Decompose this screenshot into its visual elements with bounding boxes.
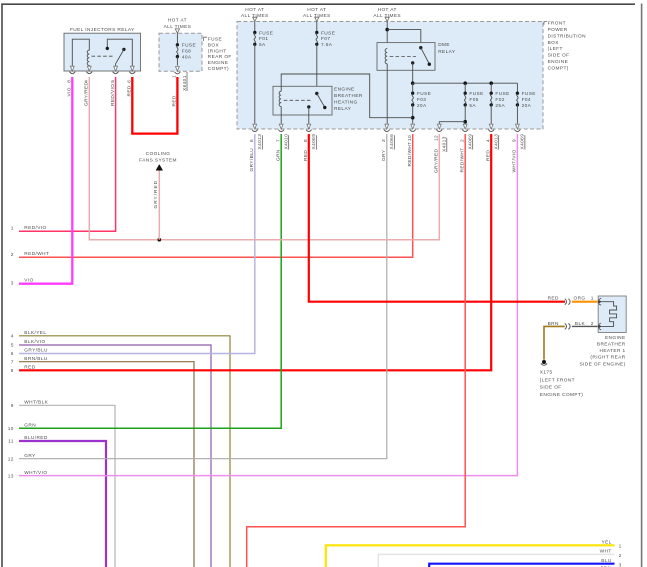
svg-text:WHT/BLK: WHT/BLK <box>24 400 48 406</box>
wire breather relay coil feed from F03 output <box>281 74 413 118</box>
connector label X4069 pin 9 <box>520 134 526 150</box>
svg-text:ORG: ORG <box>573 295 585 301</box>
svg-text:7: 7 <box>275 139 281 142</box>
wire BLK/VIO: left edge node 5 down off page bottom <box>19 345 211 567</box>
fuse F68 60A <box>176 33 196 65</box>
fuel relay coil-to-switch dashed link <box>92 55 114 57</box>
svg-text:9: 9 <box>512 139 518 142</box>
power feed HOT AT ALL TIMES above DME relay <box>373 7 401 22</box>
svg-text:FUEL INJECTORS RELAY: FUEL INJECTORS RELAY <box>70 27 135 33</box>
inline connector on heater return <box>565 323 570 329</box>
svg-text:RED: RED <box>485 150 491 161</box>
svg-text:RELAY: RELAY <box>438 49 456 55</box>
node 9 label WHT/BLK <box>11 400 49 410</box>
svg-text:3: 3 <box>619 563 622 567</box>
fuse box leader bracket <box>204 37 207 41</box>
heater component label <box>579 335 625 367</box>
fuse F01 5A <box>253 22 273 49</box>
svg-text:COOLING: COOLING <box>146 151 171 157</box>
svg-text:13: 13 <box>8 473 14 479</box>
svg-text:FUSE: FUSE <box>321 30 335 36</box>
wire GRN: left edge node 10 to distribution box pin 7 <box>19 134 281 428</box>
svg-text:RELAY: RELAY <box>334 106 352 112</box>
svg-text:1: 1 <box>591 295 594 301</box>
svg-text:F05: F05 <box>469 97 478 103</box>
svg-text:8: 8 <box>67 80 73 83</box>
svg-text:F04: F04 <box>522 97 531 103</box>
svg-text:GRY/BLU: GRY/BLU <box>249 148 255 172</box>
breather relay switch contacts <box>307 92 326 109</box>
distribution box pin 8 connector <box>306 124 312 131</box>
svg-text:BOX: BOX <box>548 40 560 46</box>
node 6 label GRY/BLU <box>11 348 48 358</box>
wire fuse F01 output down to pin 6 <box>254 44 256 124</box>
svg-text:SIDE OF ENGINE): SIDE OF ENGINE) <box>579 361 625 367</box>
ground point X175 <box>541 360 547 365</box>
svg-text:REAR OF: REAR OF <box>208 54 232 60</box>
svg-text:5A: 5A <box>259 42 266 48</box>
fuel relay pin 5 connector <box>113 66 119 73</box>
svg-text:GRY/RED: GRY/RED <box>153 180 159 209</box>
svg-text:ENGINE COMPT): ENGINE COMPT) <box>540 392 583 398</box>
svg-text:5: 5 <box>110 80 116 83</box>
junction F03 output to breather relay coil feed <box>411 116 415 120</box>
node 5 label BLK/VIO <box>11 339 46 349</box>
wire WHT from page bottom to right connector pin 2 <box>378 554 614 567</box>
svg-text:10: 10 <box>8 426 14 432</box>
connector label X4010 pin 7 <box>284 134 290 150</box>
wire fuse F03 output down to pin 10 <box>412 105 414 124</box>
distribution box location label <box>548 21 586 72</box>
breather relay coil <box>279 91 281 124</box>
svg-text:FUSE: FUSE <box>259 30 273 36</box>
wire BLU from page bottom to right connector pin 3 <box>429 564 614 567</box>
fuse F07 7.5A <box>315 22 335 49</box>
wire ORG into heater pin 1 <box>572 301 598 303</box>
svg-text:YEL: YEL <box>602 539 612 545</box>
svg-text:F68: F68 <box>182 49 191 55</box>
svg-text:25A: 25A <box>495 103 505 109</box>
wire RED/VIO: left edge node 1 to fuel relay pin 5 <box>19 77 116 231</box>
ground label X175 <box>540 369 583 398</box>
svg-text:ENGINE: ENGINE <box>334 87 355 93</box>
svg-text:FRONT: FRONT <box>548 21 566 27</box>
page border frame top <box>1 3 635 5</box>
svg-text:(LEFT: (LEFT <box>548 46 563 52</box>
wire DME coil output down to pin 3 <box>386 70 388 124</box>
svg-text:BLK/YEL: BLK/YEL <box>24 330 46 336</box>
wire GRY/BLU: left edge node 6 to distribution box pin 6 <box>19 134 255 354</box>
svg-text:40A: 40A <box>182 54 192 60</box>
connector label X4013 pin 6 <box>257 134 263 150</box>
svg-text:F01: F01 <box>259 36 268 42</box>
power feed HOT AT ALL TIMES above fuse F07 <box>303 7 331 22</box>
wire fuse F07 output down to engine breather heating relay switch <box>316 44 318 93</box>
distribution box pin 9 connector <box>515 124 521 131</box>
wire fuse supply rail <box>413 82 518 84</box>
svg-text:12: 12 <box>8 456 14 462</box>
svg-text:BLU: BLU <box>601 558 612 564</box>
breather relay dashed link <box>284 99 311 101</box>
relay K3 ENGINE BREATHER HEATING RELAY <box>273 86 363 115</box>
svg-text:BRN/BLU: BRN/BLU <box>24 356 48 362</box>
svg-text:RED: RED <box>172 95 178 106</box>
distribution box leader bracket <box>544 22 547 25</box>
svg-text:FUSE: FUSE <box>522 91 536 97</box>
svg-text:HEATING: HEATING <box>334 100 358 106</box>
fuse box location label <box>208 37 232 73</box>
svg-text:HEATER 1: HEATER 1 <box>600 348 626 354</box>
svg-text:20A: 20A <box>417 103 427 109</box>
svg-text:DISTRIBUTION: DISTRIBUTION <box>548 33 586 39</box>
svg-text:RED: RED <box>548 295 559 301</box>
svg-text:RED/VIO: RED/VIO <box>110 84 116 106</box>
svg-text:GRY: GRY <box>381 149 387 161</box>
svg-text:F03: F03 <box>417 97 426 103</box>
svg-text:1: 1 <box>619 544 622 550</box>
heater R1 ENGINE BREATHER HEATER 1 box <box>598 296 626 333</box>
svg-text:FUSE: FUSE <box>495 91 509 97</box>
fuel relay pin 6 connector <box>129 66 135 73</box>
svg-text:ENGINE: ENGINE <box>605 335 626 341</box>
fuse F02 25A <box>490 83 510 109</box>
svg-text:BOX: BOX <box>208 42 220 48</box>
distribution box pin 6 connector <box>252 124 258 131</box>
svg-text:COMPT): COMPT) <box>208 66 229 72</box>
svg-text:7.5A: 7.5A <box>321 42 333 48</box>
svg-text:8: 8 <box>11 368 14 374</box>
distribution box pin 12 connector <box>436 124 442 131</box>
wire GRY: left edge node 12 to distribution box pin 3 <box>19 134 387 459</box>
wire breather relay output down to pin 8 <box>308 107 310 124</box>
wire fuse F05 output down to pin 2 <box>464 105 466 124</box>
svg-text:SIDE OF: SIDE OF <box>540 385 562 391</box>
svg-text:BREATHER: BREATHER <box>334 93 363 99</box>
svg-text:3: 3 <box>11 281 14 287</box>
svg-text:6: 6 <box>11 351 14 357</box>
svg-text:HOT AT: HOT AT <box>245 7 264 13</box>
wire BLK/YEL: left edge node 4 down off page bottom <box>19 336 230 567</box>
wire DME relay output down to fuse rail <box>412 63 414 83</box>
node 11 label BLU/RED <box>8 435 48 445</box>
junction on GRY/RED wire at cooling fans branch <box>158 238 162 242</box>
svg-text:4: 4 <box>485 139 491 142</box>
svg-text:11: 11 <box>8 439 14 445</box>
svg-text:FANS SYSTEM: FANS SYSTEM <box>139 157 177 163</box>
wire RED/WHT: left edge node 2 to distribution box pin 10 <box>19 134 413 257</box>
distribution box pin 4 connector <box>488 124 494 131</box>
svg-text:2: 2 <box>619 553 622 559</box>
svg-text:10: 10 <box>407 135 413 141</box>
wire branch to DME relay switch contact <box>387 30 421 47</box>
wire fuse F02 output down to pin 4 <box>490 105 492 124</box>
junction F05 output split to pin 12 <box>463 120 467 124</box>
svg-text:RED/WHT: RED/WHT <box>407 142 413 167</box>
svg-text:F02: F02 <box>495 97 504 103</box>
svg-text:2: 2 <box>11 252 14 258</box>
svg-text:5A: 5A <box>469 103 476 109</box>
node 7 label BRN/BLU <box>11 356 48 366</box>
svg-text:WHT: WHT <box>600 549 612 555</box>
node 1 label RED/VIO <box>11 225 47 232</box>
svg-text:DME: DME <box>438 42 450 48</box>
fuse F04 20A <box>516 83 536 109</box>
svg-text:F07: F07 <box>321 36 330 42</box>
fuel relay switch, fixed contact fed from pin 6 <box>106 39 133 71</box>
svg-text:3: 3 <box>381 139 387 142</box>
page border frame left <box>1 4 3 567</box>
distribution box pin 10 connector <box>410 124 416 131</box>
power feed HOT AT ALL TIMES above fuse box F68 <box>164 18 192 34</box>
svg-text:COMPT): COMPT) <box>548 65 569 71</box>
wire BLU/RED: left edge node 11 down off page bottom <box>19 441 106 567</box>
node 10 label GRN <box>8 423 37 433</box>
fuel relay coil between pins 8 and 4 <box>72 39 89 71</box>
inline connector on heater feed <box>565 299 570 305</box>
fuel relay pin 8 connector <box>69 66 75 73</box>
svg-text:RED/VIO: RED/VIO <box>24 225 46 231</box>
svg-text:GRY/RED: GRY/RED <box>434 148 440 173</box>
svg-text:FUSE: FUSE <box>182 43 196 49</box>
fuel relay pin 4 connector <box>86 66 92 73</box>
wire branch F05 output to pin 12 <box>439 122 465 124</box>
junction fuse rail at F05 <box>463 81 467 85</box>
heater element <box>602 302 617 327</box>
distribution box pin 7 connector <box>278 124 284 131</box>
connector label X4069 pin 2 <box>468 134 474 150</box>
node 12 label GRY <box>8 453 36 463</box>
svg-text:1: 1 <box>172 75 178 78</box>
fuse F03 20A <box>411 83 431 109</box>
junction fuse rail at F02 <box>489 81 493 85</box>
power feed HOT AT ALL TIMES above fuse F01 <box>241 7 269 22</box>
DME relay dashed link <box>390 56 416 58</box>
wire BRN/BLU: left edge node 7 down off page bottom <box>19 362 194 567</box>
page border frame right <box>641 4 643 567</box>
svg-text:FUSE: FUSE <box>417 91 431 97</box>
relay K1 FUEL INJECTORS RELAY <box>64 27 141 71</box>
svg-text:ENGINE: ENGINE <box>208 60 229 66</box>
wire fuse F04 output down to pin 9 <box>516 105 518 124</box>
node 3 label VIO <box>11 278 34 287</box>
svg-text:6: 6 <box>249 139 255 142</box>
wire RED/WHT: distribution box pin 2 down, left, down off page <box>247 134 466 567</box>
distribution box pin 2 connector <box>462 124 468 131</box>
svg-text:FUSE: FUSE <box>469 91 483 97</box>
wire VIO: left edge node 3 to fuel relay pin 8 <box>19 77 72 284</box>
svg-text:7: 7 <box>11 359 14 365</box>
DME relay switch contacts <box>411 46 431 66</box>
svg-text:GRY: GRY <box>24 453 36 459</box>
svg-text:HOT AT: HOT AT <box>168 18 187 24</box>
svg-text:(RIGHT REAR: (RIGHT REAR <box>590 355 625 361</box>
svg-text:POWER: POWER <box>548 27 568 33</box>
svg-text:GRN: GRN <box>275 149 281 161</box>
svg-text:ENGINE: ENGINE <box>548 59 569 65</box>
svg-text:1: 1 <box>11 226 14 232</box>
svg-text:5: 5 <box>11 343 14 349</box>
svg-text:(RIGHT: (RIGHT <box>208 48 227 54</box>
svg-text:RED/WHT: RED/WHT <box>24 251 49 257</box>
connector label X4066 pin 3 <box>389 134 395 150</box>
distribution box pin 3 connector <box>384 124 390 131</box>
svg-text:BREATHER: BREATHER <box>597 342 626 348</box>
node 4 label BLK/YEL <box>11 330 47 340</box>
svg-text:SIDE OF: SIDE OF <box>548 53 570 59</box>
svg-text:(LEFT FRONT: (LEFT FRONT <box>540 377 575 383</box>
relay K2 DME RELAY <box>377 42 456 70</box>
svg-text:BLK/VIO: BLK/VIO <box>24 339 45 345</box>
connector label X4013 pin 4 <box>494 134 500 150</box>
svg-text:WHT/VIO: WHT/VIO <box>512 149 518 172</box>
junction fuse rail at F03 <box>411 81 415 85</box>
svg-text:X175: X175 <box>540 369 553 375</box>
DME relay coil <box>385 49 387 71</box>
svg-text:12: 12 <box>434 135 440 141</box>
svg-text:FUSE: FUSE <box>208 37 222 43</box>
node 8 label RED <box>11 365 36 375</box>
wire BLK into heater pin 2 <box>572 325 598 327</box>
svg-text:20A: 20A <box>522 103 532 109</box>
connector label X4013 pin 12 <box>442 136 448 152</box>
wire YEL from page bottom to right connector pin 1 <box>326 545 615 567</box>
svg-text:4: 4 <box>11 334 14 340</box>
svg-text:HOT AT: HOT AT <box>378 7 397 13</box>
wire RED: left edge node 8 to distribution box pin 4 <box>19 134 491 370</box>
node 13 label WHT/VIO <box>8 470 48 480</box>
front power distribution box dashed enclosure <box>237 22 543 130</box>
fuse box (right rear of engine compt) dashed enclosure <box>159 33 202 71</box>
connector label X6401 <box>182 72 188 91</box>
fuse F05 5A <box>464 83 484 109</box>
wire RED: fuel relay pin 6 down, right, up to fuse box X6401 pin 1 <box>132 77 177 134</box>
wire third hot feed down into DME relay coil <box>386 22 388 48</box>
wire WHT/VIO: left edge node 13 to distribution box pin 9 <box>19 134 517 476</box>
wire GRY/RED: fuel relay pin 4 down, right to distribution box pin 12 <box>89 77 439 240</box>
fuse box pin 1 connector X6401 <box>175 66 181 73</box>
wire BRN from heater return to ground point X175 <box>544 326 565 359</box>
cooling fans system off-page arrow <box>139 151 177 171</box>
wire RED: distribution box pin 8 down and right to engine breather heater 1 <box>309 134 565 302</box>
svg-text:HOT AT: HOT AT <box>307 7 326 13</box>
wire WHT/BLK: left edge node 9 down off page bottom <box>19 405 115 567</box>
wire GRY/RED branch up to cooling fans system <box>158 170 160 240</box>
svg-text:VIO: VIO <box>67 87 73 96</box>
node 2 label RED/WHT <box>11 251 50 258</box>
connector label X4069 pin 8 <box>311 134 317 150</box>
junction on hot feed branch to DME switch <box>385 28 389 32</box>
svg-text:9: 9 <box>11 403 14 409</box>
